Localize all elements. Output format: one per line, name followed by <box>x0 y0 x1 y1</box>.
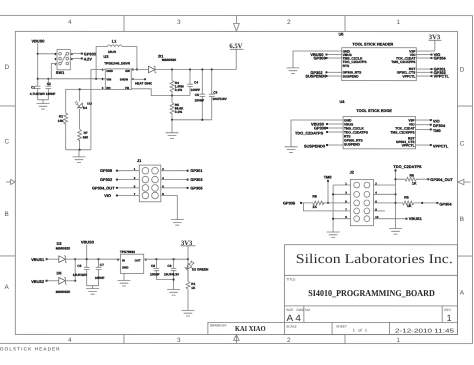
svg-text:SUSPEND: SUSPEND <box>343 74 360 78</box>
LED D2 green <box>187 259 189 281</box>
svg-text:100PF: 100PF <box>191 88 200 92</box>
wire VIN rail <box>38 78 106 80</box>
node GP300 flag U4 <box>326 127 328 129</box>
svg-text:4.2V: 4.2V <box>84 56 92 61</box>
svg-text:C7: C7 <box>100 263 104 267</box>
scale cell divider <box>331 322 333 334</box>
svg-text:GP304_OUT: GP304_OUT <box>92 185 115 190</box>
svg-text:KAI XIAO: KAI XIAO <box>235 324 266 333</box>
svg-text:MBR0520: MBR0520 <box>162 58 177 62</box>
node SUSPEND0 flag U5 <box>325 75 327 77</box>
svg-text:C3: C3 <box>213 90 217 94</box>
wire U5 TCK <box>416 57 431 59</box>
top center fold arrow <box>235 15 237 23</box>
wire diode junction vertical <box>74 259 76 281</box>
wire VBUS0 rail to U6 <box>75 258 120 260</box>
node GP301 flag U5 <box>431 68 433 70</box>
node VBUS1 flag <box>46 258 48 260</box>
ground under J2 left <box>327 232 340 238</box>
svg-text:U3: U3 <box>103 54 109 59</box>
svg-text:TDO_C2DATPS: TDO_C2DATPS <box>393 164 422 169</box>
svg-text:10UF/16V: 10UF/16V <box>212 97 227 101</box>
svg-text:GP303: GP303 <box>190 177 203 182</box>
svg-text:VPPCTL: VPPCTL <box>433 144 449 149</box>
svg-text:R8: R8 <box>312 195 317 199</box>
svg-text:U5: U5 <box>339 31 345 36</box>
diode B1 MBR0520 <box>148 66 155 73</box>
svg-text:TM0: TM0 <box>324 174 332 179</box>
svg-text:OUT: OUT <box>135 258 141 262</box>
ground for U5 <box>287 68 300 74</box>
capacitor C2 <box>47 79 49 86</box>
wire J2 pin6 / resistor R5b line <box>373 201 436 205</box>
ground under C6/C7 <box>86 289 99 295</box>
wire GP305 branch to pin7 <box>303 203 350 211</box>
svg-text:DRAWN BY: DRAWN BY <box>210 324 228 328</box>
svg-text:VPPCTL: VPPCTL <box>434 74 450 79</box>
node TDO_C2DATPS flag U4 <box>326 131 328 133</box>
left fold arrow <box>6 181 11 183</box>
wire VBUS2 to D5 <box>48 280 59 282</box>
svg-text:GND: GND <box>122 266 128 270</box>
capacitor C7 <box>96 259 102 286</box>
node D4 tap <box>79 88 81 90</box>
switch SW1 <box>57 50 70 70</box>
node C7 tap <box>97 258 99 260</box>
svg-text:4: 4 <box>68 337 72 344</box>
wire U4 VIO <box>416 124 431 126</box>
wire J2 pin10 <box>373 218 405 220</box>
svg-text:560: 560 <box>83 136 89 140</box>
top margin tick 4/3 <box>123 15 125 31</box>
U4SECTION <box>285 99 449 152</box>
node VBUS1 flag J2 <box>405 218 407 220</box>
wire J2 pin4 <box>373 193 395 195</box>
node SUSPEND0 flag U4 <box>326 144 328 146</box>
wire J1 pin8 to ground <box>161 195 178 219</box>
outer border bottom line <box>0 342 472 344</box>
wire U4 TMS <box>328 127 344 129</box>
resistor R8 <box>302 201 350 205</box>
wire J1 pin5 <box>117 187 139 189</box>
svg-text:4.7UF/16V: 4.7UF/16V <box>30 92 46 96</box>
svg-text:C1: C1 <box>31 85 35 89</box>
wire J2 ground bus vertical <box>332 185 334 232</box>
svg-text:VPPCTL: VPPCTL <box>402 74 415 78</box>
wire U5 SUSPEND <box>327 75 342 77</box>
wire 3V3 rail <box>144 258 188 260</box>
svg-text:B: B <box>460 216 464 223</box>
wire 6.5V rail <box>155 68 236 70</box>
svg-text:GP301: GP301 <box>190 168 203 173</box>
TITLEBLOCK <box>208 245 458 335</box>
svg-text:A 4: A 4 <box>286 313 301 323</box>
svg-text:100NF: 100NF <box>95 276 105 280</box>
svg-text:RTS: RTS <box>343 64 350 68</box>
svg-text:EN: EN <box>106 86 110 90</box>
wire U4 TDO <box>328 131 344 133</box>
node C3 tap <box>211 68 213 70</box>
op-amp U3 TPS61040 <box>105 69 131 90</box>
ground under C1/C2 <box>37 103 50 109</box>
wire U5 V3P to 3V3 <box>416 50 435 52</box>
svg-text:TITLE: TITLE <box>286 278 296 282</box>
node VBUS0 flag U5 <box>325 54 327 56</box>
svg-text:C8: C8 <box>151 264 155 268</box>
wire U5 TMS <box>327 57 342 59</box>
wire U5 GP300_RTS <box>327 71 342 73</box>
svg-text:GP304: GP304 <box>439 201 452 206</box>
drawn-by box <box>208 322 285 334</box>
left margin tick D/C <box>0 105 15 107</box>
svg-text:1: 1 <box>397 19 401 26</box>
capacitor C8 <box>154 259 160 279</box>
svg-text:GND: GND <box>106 69 112 73</box>
svg-text:HEAT SINK: HEAT SINK <box>135 82 153 86</box>
capacitor C6 <box>84 259 90 286</box>
node R5b right junction <box>421 202 423 204</box>
svg-text:GP304_OUT: GP304_OUT <box>430 177 453 182</box>
wire U4 SUSPEND <box>328 144 344 146</box>
node D3/D5 junction top <box>74 258 76 260</box>
svg-text:VIN: VIN <box>106 77 111 81</box>
ground for U4 <box>285 147 298 153</box>
wire VBUS1 to D3 <box>48 258 59 260</box>
capacitor C9 <box>171 259 177 289</box>
svg-text:0.1%: 0.1% <box>175 110 182 114</box>
svg-text:IN: IN <box>122 258 125 262</box>
wire J2 pin2 <box>373 184 395 186</box>
node LED tap <box>187 258 189 260</box>
svg-text:C4: C4 <box>194 81 198 85</box>
wire J1 pin6 <box>161 187 187 189</box>
svg-text:C: C <box>5 138 10 145</box>
svg-text:6.5V: 6.5V <box>229 43 242 50</box>
resistor R7 <box>78 109 82 150</box>
svg-text:TOOL STICK HEADER: TOOL STICK HEADER <box>352 41 393 46</box>
svg-text:2: 2 <box>287 337 291 344</box>
wire U4 VBUS <box>328 123 344 125</box>
svg-text:VBUS0: VBUS0 <box>81 240 94 245</box>
svg-text:10UF/6.3V: 10UF/6.3V <box>164 272 180 276</box>
node VPPCTL flag U4 <box>430 144 432 146</box>
right margin tick D/C <box>458 105 473 107</box>
wire J2 pin1 to ground bus <box>333 184 350 186</box>
capacitor C4 <box>187 69 193 95</box>
svg-text:3: 3 <box>177 337 181 344</box>
svg-text:SUSPEND0: SUSPEND0 <box>304 144 325 149</box>
inner frame rectangle <box>15 31 457 334</box>
svg-text:MBR0520: MBR0520 <box>56 290 71 294</box>
node GP304_OUT flag <box>427 178 429 180</box>
svg-text:GP305: GP305 <box>283 200 296 205</box>
ground under R2/R7 <box>73 150 86 163</box>
svg-text:DWG NO: DWG NO <box>296 308 310 312</box>
inductor L1 <box>96 47 107 79</box>
diode D4 <box>79 89 81 101</box>
resistor R4 <box>170 69 174 95</box>
top margin tick 2/1 <box>344 16 346 32</box>
svg-text:1: 1 <box>396 337 400 344</box>
svg-text:D: D <box>5 64 10 71</box>
wire SW1 pin6 to 4.2V <box>70 57 81 59</box>
ground under U6 <box>117 280 130 286</box>
wire C6/C7 bottoms <box>87 286 99 289</box>
svg-text:TDO_C2DATPS: TDO_C2DATPS <box>295 131 324 136</box>
svg-text:A: A <box>4 284 9 291</box>
wire J1 pin4 <box>161 179 187 181</box>
svg-text:10UH: 10UH <box>108 50 117 54</box>
wire U4 VPPCTL <box>416 144 431 146</box>
svg-text:GP305: GP305 <box>190 185 203 190</box>
node GP304 flag U4 <box>430 124 432 126</box>
right fold arrow <box>465 181 471 183</box>
node TM0 flag U4 <box>430 128 432 130</box>
title row separator <box>284 305 457 307</box>
wire U4 GND to ground <box>291 120 343 147</box>
node R4 tap <box>171 68 173 70</box>
J2SECTION <box>283 164 453 238</box>
node VBUS0/VIN junction <box>37 78 39 80</box>
wire U4 TCK <box>416 128 431 130</box>
svg-text:GP302: GP302 <box>100 177 113 182</box>
wire analog ground rail <box>172 119 212 121</box>
node VPPCTL flag U5 <box>431 75 433 77</box>
svg-text:2: 2 <box>287 19 291 26</box>
right margin tick B/A <box>457 255 472 257</box>
wire U5 GP301_CTS <box>416 71 431 73</box>
node pin6 junction <box>394 202 396 204</box>
rev cell divider <box>441 306 443 323</box>
svg-text:GP304: GP304 <box>434 56 447 61</box>
sheet cell divider <box>388 322 390 334</box>
node pin4 junction <box>394 193 396 195</box>
svg-text:SIZE: SIZE <box>286 308 293 312</box>
wire C1/C2 bottoms <box>38 100 49 104</box>
wire U4 V3P <box>416 119 431 121</box>
svg-text:1K: 1K <box>407 204 412 208</box>
svg-text:TOOLSTICK HEADER: TOOLSTICK HEADER <box>0 346 61 351</box>
svg-text:TPS61040_DBVR: TPS61040_DBVR <box>104 62 131 66</box>
wire U6 GND to ground <box>123 273 125 280</box>
capacitor C3 <box>209 69 215 119</box>
svg-text:1K: 1K <box>312 205 317 209</box>
svg-text:SUSPEND0: SUSPEND0 <box>305 74 326 79</box>
wire U3 SHDN stub / heat sink <box>131 78 145 80</box>
node GP304 flag U5 <box>431 57 433 59</box>
node C4 tap <box>189 68 191 70</box>
svg-text:FB: FB <box>125 86 129 90</box>
svg-text:10K: 10K <box>58 119 65 123</box>
svg-text:3: 3 <box>177 19 181 26</box>
wire U3 FB to divider <box>131 89 190 96</box>
svg-text:TOOL STICK EDGE: TOOL STICK EDGE <box>356 108 392 113</box>
node TM0/R8 junction <box>327 202 329 204</box>
node VIO flag <box>116 194 118 196</box>
node C5 tap <box>201 68 203 70</box>
wire U3 GND pin to ground drop <box>91 68 105 70</box>
svg-text:R6: R6 <box>410 173 415 177</box>
wire U3 EN line <box>66 89 106 113</box>
svg-text:1 of 1: 1 of 1 <box>353 328 368 333</box>
node 4.2V flag <box>81 57 83 59</box>
outer border top line <box>0 14 473 16</box>
ground under J1 <box>171 220 184 226</box>
node L1 tap <box>95 78 97 80</box>
node VIO flag U5 <box>431 54 433 56</box>
svg-text:1K: 1K <box>191 286 196 290</box>
wire U5 VBUS <box>327 54 342 56</box>
bottom margin tick 4/3 <box>123 334 125 343</box>
wire U3 SW pin stub <box>131 68 148 70</box>
svg-text:C9: C9 <box>167 264 171 268</box>
wire TDO vertical <box>394 169 396 229</box>
node GP302 flag U5 <box>325 71 327 73</box>
node GP306 flag <box>116 170 118 172</box>
svg-text:C5: C5 <box>195 93 199 97</box>
svg-text:Silicon Laboratories Inc.: Silicon Laboratories Inc. <box>296 251 453 266</box>
size row separator <box>284 321 457 323</box>
svg-text:C2: C2 <box>47 82 51 86</box>
resistor R5 <box>170 95 174 119</box>
svg-text:SW1: SW1 <box>56 70 65 75</box>
svg-text:VPPCTL: VPPCTL <box>402 143 415 147</box>
wire J1 pin7 <box>117 194 139 196</box>
svg-text:SI4010_PROGRAMMING_BOARD: SI4010_PROGRAMMING_BOARD <box>308 288 435 298</box>
svg-text:100NF: 100NF <box>150 272 160 276</box>
svg-text:C6: C6 <box>77 264 81 268</box>
wire J1 pin2 <box>161 170 187 172</box>
node GP301 flag <box>187 170 189 172</box>
svg-text:10UF/16V: 10UF/16V <box>73 273 88 277</box>
wire SW1 pin4 to GP300 <box>70 53 81 55</box>
size cell divider <box>303 306 305 323</box>
company row separator <box>284 274 457 276</box>
svg-text:D2 GREEN: D2 GREEN <box>192 268 209 272</box>
capacitor C5 <box>200 69 206 119</box>
node C8 tap <box>155 258 157 260</box>
svg-text:1: 1 <box>447 313 452 323</box>
wire J2 pin9 <box>333 218 350 220</box>
node TDO top <box>394 169 396 171</box>
svg-text:SUSPEND: SUSPEND <box>344 142 361 146</box>
node D5 junction bottom <box>74 280 76 282</box>
node GP303 flag <box>187 179 189 181</box>
ground under R1 <box>181 310 194 316</box>
svg-text:D4: D4 <box>83 106 87 110</box>
wire VBUS0 to SW1 <box>38 53 57 55</box>
node C8/C9 bottom junction <box>172 278 174 280</box>
node GP300 flag U5 <box>325 57 327 59</box>
wire D3 to junction <box>65 258 75 260</box>
svg-text:TMS_C2CKFPS: TMS_C2CKFPS <box>390 130 415 134</box>
svg-text:GP300: GP300 <box>314 56 326 61</box>
wire U5 VIO <box>416 54 431 56</box>
svg-text:C: C <box>460 141 465 148</box>
U5SECTION <box>287 31 450 80</box>
svg-text:SHDN: SHDN <box>120 77 128 81</box>
svg-text:VBUS0: VBUS0 <box>32 39 45 44</box>
bottom center fold arrow <box>235 336 237 344</box>
wire U5 GND to ground <box>293 51 342 68</box>
wire digital ground rail <box>66 149 91 151</box>
bottom margin tick 2/1 <box>344 335 346 344</box>
node FB/R4/R5 junction <box>171 94 173 96</box>
svg-text:C13: C13 <box>87 103 92 106</box>
svg-text:VBUS1: VBUS1 <box>409 216 423 221</box>
svg-text:D5: D5 <box>57 271 63 276</box>
ground under J2 right <box>389 229 402 235</box>
resistor R6 <box>396 177 428 181</box>
capacitor C1 <box>35 85 41 87</box>
svg-text:SHEET: SHEET <box>336 324 347 328</box>
wire J2 pin3 <box>333 193 350 195</box>
node R6 junction <box>394 178 396 180</box>
svg-text:4: 4 <box>68 19 72 26</box>
svg-text:U4: U4 <box>340 99 346 104</box>
node GP305 flag <box>187 187 189 189</box>
node C2 tap <box>47 78 49 80</box>
svg-text:VIO: VIO <box>104 193 111 198</box>
wire VBUS0 vertical <box>37 43 39 86</box>
node VBUS2 flag <box>46 280 48 282</box>
node GP304_OUT flag <box>116 187 118 189</box>
ground under R5/C5/C3 <box>166 120 179 139</box>
wire SW1 pin1 down to VIN rail <box>51 63 57 78</box>
J1SECTION <box>92 158 203 225</box>
node VIO flag U4 <box>430 119 432 121</box>
wire J2 pin8 stub <box>373 210 385 212</box>
svg-text:GP306: GP306 <box>100 168 113 173</box>
wire J1 pin3 <box>118 179 140 181</box>
wire L1 to SW node <box>122 47 137 70</box>
node VBUS0 flag U4 <box>326 123 328 125</box>
svg-text:SCALE: SCALE <box>286 324 296 328</box>
wire J1 pin1 <box>118 170 140 172</box>
svg-text:A: A <box>460 290 465 297</box>
node GP304 flag J2 <box>436 202 438 204</box>
node C9 tap <box>172 258 174 260</box>
svg-text:100NF: 100NF <box>195 98 205 102</box>
svg-text:SW: SW <box>125 69 130 73</box>
svg-text:R5: R5 <box>404 195 409 199</box>
svg-text:B: B <box>4 211 8 218</box>
svg-text:MBR0520: MBR0520 <box>56 246 71 250</box>
node C6 tap <box>86 258 88 260</box>
node GP305 flag <box>300 202 302 204</box>
left margin tick B/A <box>0 255 15 257</box>
svg-text:100NF: 100NF <box>46 92 56 96</box>
node GP303 flag U5 <box>431 71 433 73</box>
svg-text:TPS76933: TPS76933 <box>120 250 135 254</box>
title block outline <box>284 245 457 335</box>
wire GND drop vertical <box>90 69 92 149</box>
node SW junction <box>136 68 138 70</box>
node GP300 flag <box>81 53 83 55</box>
svg-text:1K: 1K <box>412 182 417 186</box>
ground under C8/C9 <box>167 289 180 295</box>
POWER <box>30 39 244 163</box>
svg-text:VBUS1: VBUS1 <box>31 257 45 262</box>
outer border right line <box>471 16 473 344</box>
svg-text:VBUS2: VBUS2 <box>31 279 45 284</box>
wire C8 to C9 bottom <box>156 279 173 281</box>
wire TM0 vertical <box>327 179 329 203</box>
svg-text:2-12-2010 11:45: 2-12-2010 11:45 <box>395 329 454 335</box>
node GP302 flag <box>116 179 118 181</box>
node VBUS0/SW1 junction <box>37 53 39 55</box>
svg-text:0.1%: 0.1% <box>175 88 182 92</box>
